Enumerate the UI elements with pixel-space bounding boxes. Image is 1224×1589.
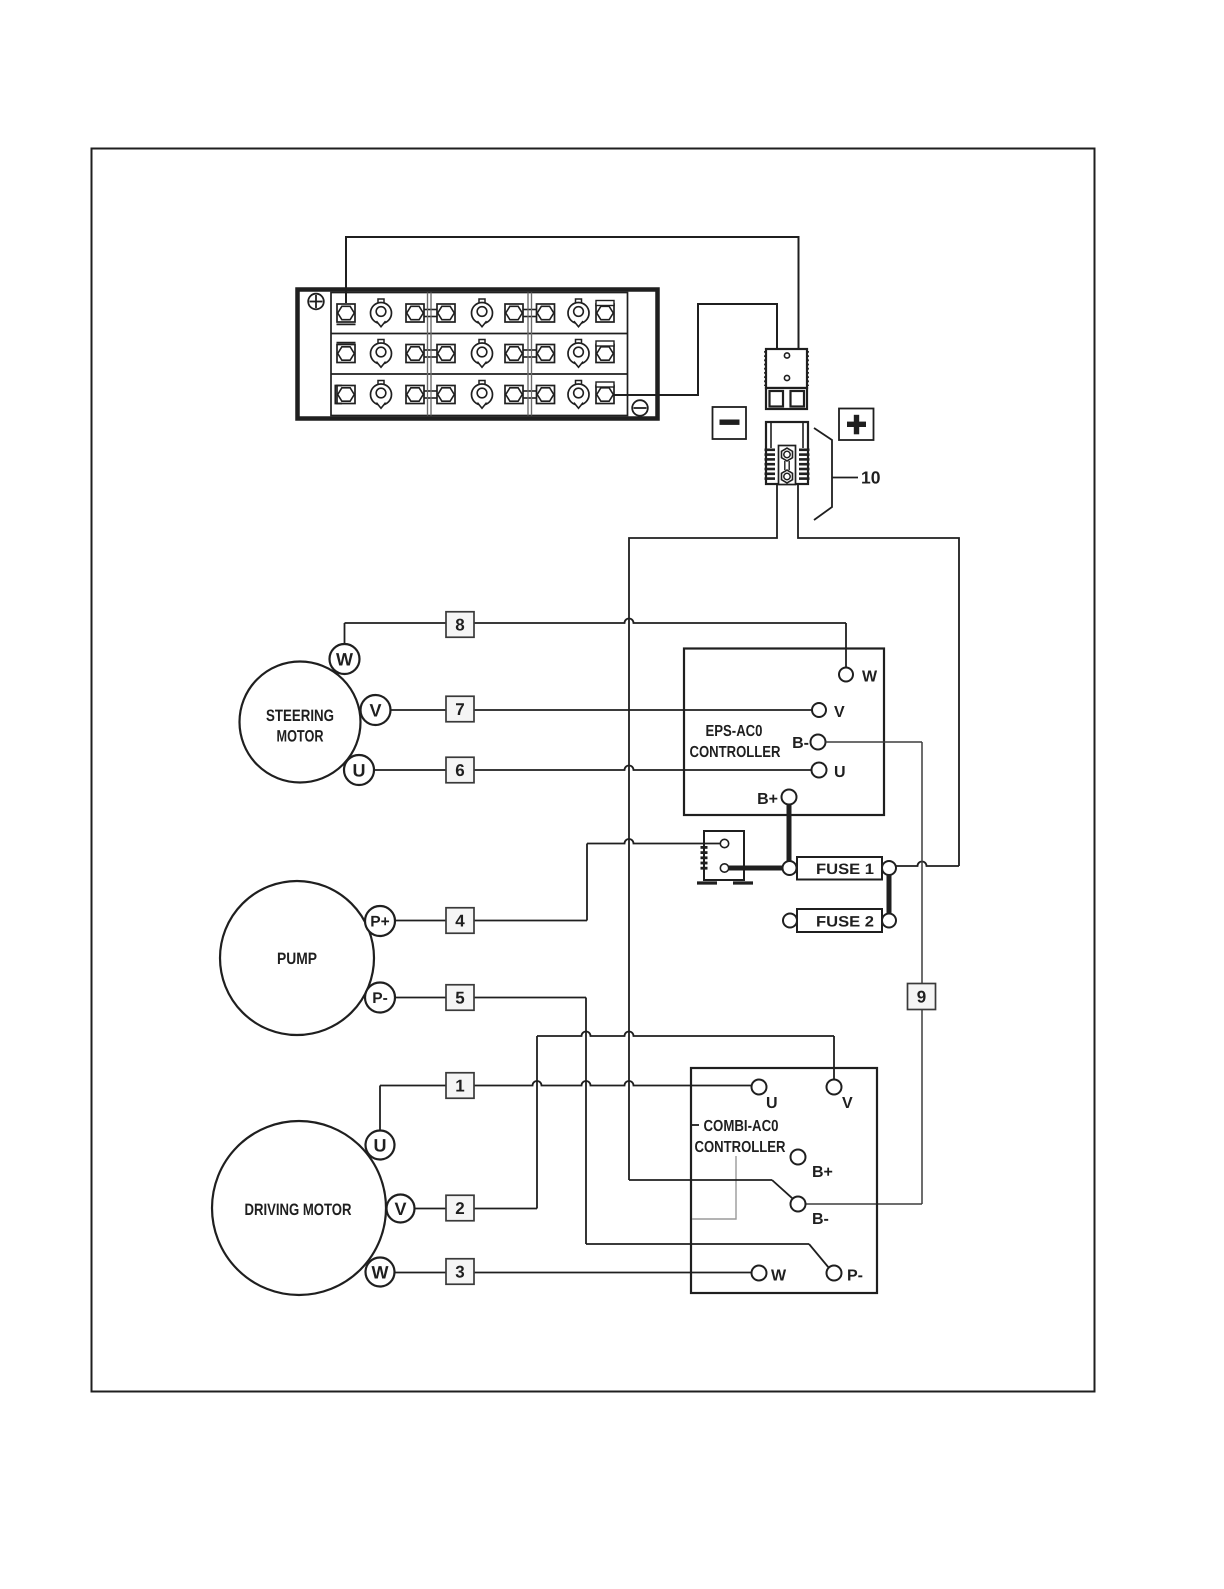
wire battery negative to connector bbox=[613, 304, 777, 395]
wire label 3 bbox=[446, 1259, 474, 1285]
svg-text:COMBI-AC0: COMBI-AC0 bbox=[704, 1118, 779, 1135]
COMBI terminal U bbox=[752, 1080, 778, 1113]
wire label 6 bbox=[446, 757, 474, 783]
motor DRIVING MOTOR bbox=[212, 1121, 386, 1295]
svg-text:W: W bbox=[372, 1262, 389, 1282]
COMBI terminal V bbox=[827, 1080, 854, 1113]
svg-text:8: 8 bbox=[455, 616, 464, 635]
plus polarity symbol bbox=[839, 409, 874, 441]
COMBI terminal B+ bbox=[791, 1150, 833, 1182]
motor PUMP bbox=[220, 881, 374, 1035]
COMBI-AC0 controller box bbox=[691, 1068, 877, 1293]
svg-text:B-: B- bbox=[812, 1211, 829, 1228]
wire battery positive to connector bbox=[346, 237, 799, 349]
driving motor terminal U bbox=[366, 1131, 395, 1160]
wire label 4 bbox=[446, 908, 474, 934]
svg-text:3: 3 bbox=[455, 1263, 464, 1282]
wire 4: pump P+ to contactor bbox=[395, 839, 720, 921]
COMBI leader line bbox=[692, 1156, 736, 1219]
EPS terminal B+ bbox=[757, 790, 796, 809]
svg-text:DRIVING MOTOR: DRIVING MOTOR bbox=[245, 1201, 352, 1219]
wire contactor to fuse 1 (thick) bbox=[729, 866, 784, 871]
svg-text:4: 4 bbox=[455, 912, 465, 931]
svg-text:STEERING: STEERING bbox=[266, 707, 334, 725]
EPS terminal U bbox=[812, 763, 846, 782]
wire label 7 bbox=[446, 696, 474, 722]
wire label 9 bbox=[908, 984, 936, 1010]
wire 3: driving W to COMBI W bbox=[395, 1272, 753, 1274]
wire 5: pump P- to COMBI P- bbox=[395, 998, 829, 1269]
svg-text:CONTROLLER: CONTROLLER bbox=[695, 1139, 786, 1156]
fuse F1 FUSE 1 bbox=[783, 857, 897, 880]
svg-text:V: V bbox=[369, 700, 381, 720]
wire 6: steering U to EPS U bbox=[374, 766, 812, 771]
wire 9: EPS B- to COMBI B- bbox=[805, 742, 922, 1204]
svg-text:U: U bbox=[374, 1135, 387, 1155]
battery BT1 bbox=[298, 290, 658, 419]
wire minus bus to COMBI B- bbox=[629, 1180, 793, 1199]
wire 1: driving U to COMBI U bbox=[380, 1081, 752, 1130]
steering motor terminal V bbox=[361, 695, 391, 725]
svg-text:EPS-AC0: EPS-AC0 bbox=[706, 723, 763, 740]
motor STEERING MOTOR bbox=[240, 662, 361, 783]
truck connector lower half (item 10) bbox=[765, 422, 810, 485]
svg-text:B+: B+ bbox=[812, 1164, 833, 1181]
svg-text:U: U bbox=[766, 1095, 778, 1112]
svg-text:P+: P+ bbox=[370, 914, 389, 931]
driving motor terminal V bbox=[387, 1195, 415, 1223]
COMBI terminal W bbox=[752, 1266, 788, 1285]
battery negative terminal symbol bbox=[632, 400, 648, 416]
svg-text:W: W bbox=[862, 669, 878, 686]
svg-text:B+: B+ bbox=[757, 791, 778, 808]
steering motor terminal U bbox=[344, 755, 374, 785]
wire label 8 bbox=[446, 612, 474, 638]
svg-text:FUSE 1: FUSE 1 bbox=[816, 861, 874, 878]
wire fuse1 to fuse2 (thick) bbox=[887, 875, 892, 914]
EPS terminal W bbox=[839, 668, 878, 686]
svg-text:W: W bbox=[771, 1268, 787, 1285]
wire label 5 bbox=[446, 985, 474, 1011]
svg-text:PUMP: PUMP bbox=[277, 950, 317, 968]
battery cell terminals bbox=[335, 299, 614, 408]
battery connector upper half bbox=[765, 349, 808, 409]
wire EPS B+ to fuse 1 (power) bbox=[787, 805, 792, 862]
svg-text:7: 7 bbox=[455, 700, 464, 719]
svg-text:B-: B- bbox=[792, 735, 809, 752]
svg-text:1: 1 bbox=[455, 1077, 464, 1096]
fuse F2 FUSE 2 bbox=[783, 909, 896, 932]
wire connector positive to fuse 1 bbox=[798, 484, 959, 866]
svg-text:P-: P- bbox=[372, 990, 388, 1007]
svg-text:5: 5 bbox=[455, 989, 464, 1008]
pump terminal P- bbox=[365, 983, 395, 1013]
wire 2: driving V to COMBI V bbox=[415, 1032, 834, 1209]
svg-text:FUSE 2: FUSE 2 bbox=[816, 914, 874, 931]
svg-text:2: 2 bbox=[455, 1199, 464, 1218]
svg-text:W: W bbox=[336, 649, 353, 669]
svg-text:MOTOR: MOTOR bbox=[277, 728, 324, 746]
EPS terminal V bbox=[812, 703, 845, 721]
svg-text:V: V bbox=[842, 1095, 853, 1112]
pump terminal P+ bbox=[365, 906, 395, 936]
svg-text:U: U bbox=[834, 764, 846, 781]
wire connector negative to minus bus bbox=[629, 484, 777, 1180]
svg-text:9: 9 bbox=[917, 988, 926, 1007]
EPS-AC0 controller box bbox=[684, 649, 884, 816]
wire label 1 bbox=[446, 1073, 474, 1099]
battery positive terminal symbol bbox=[308, 294, 324, 310]
svg-text:V: V bbox=[834, 704, 845, 721]
minus polarity symbol bbox=[713, 407, 747, 439]
svg-text:P-: P- bbox=[847, 1268, 863, 1285]
svg-text:V: V bbox=[394, 1199, 406, 1219]
svg-text:10: 10 bbox=[861, 468, 881, 488]
svg-text:U: U bbox=[353, 760, 366, 780]
svg-text:6: 6 bbox=[455, 761, 464, 780]
contactor K1 bbox=[697, 831, 753, 883]
COMBI terminal P- bbox=[827, 1266, 864, 1285]
driving motor terminal W bbox=[366, 1258, 395, 1287]
steering motor terminal W bbox=[330, 644, 360, 674]
EPS terminal B- bbox=[792, 735, 825, 753]
callout 10 (connector) bbox=[814, 428, 881, 520]
wire 7: steering V to EPS V bbox=[390, 709, 812, 711]
wire 8: steering W to EPS W bbox=[345, 619, 847, 668]
COMBI terminal B- bbox=[791, 1197, 829, 1229]
svg-text:CONTROLLER: CONTROLLER bbox=[690, 744, 781, 761]
wire label 2 bbox=[446, 1195, 474, 1221]
